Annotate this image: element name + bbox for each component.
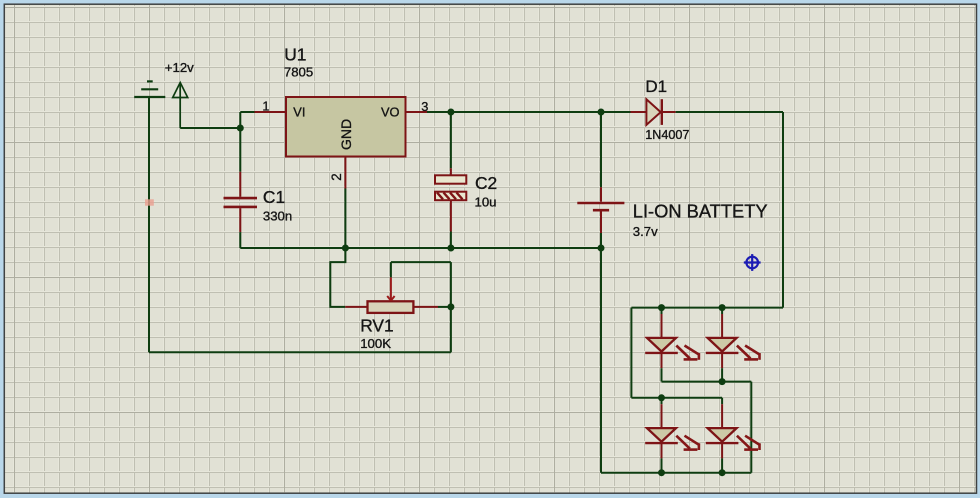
wire LED3 cathode to bottom rail [661,458,663,472]
wire C2 bottom to mid rail [450,232,452,249]
marker on ground wire [145,199,154,205]
svg-text:1: 1 [262,99,269,114]
junction RV1 right node [447,303,454,310]
wire right vertical [782,112,784,308]
pin 3 stub [406,111,428,113]
LED D4 [645,398,699,459]
svg-text:U1: U1 [284,44,306,64]
wire LED row2 top [631,397,722,399]
origin marker crosshair [744,254,761,271]
diode D1 [631,99,676,125]
pin 2 stub [344,157,346,189]
LED D2 [645,308,699,369]
junction node A [237,125,244,132]
svg-text:1N4007: 1N4007 [645,128,689,142]
wire node A up [239,112,241,128]
wire node A to pin1 [240,111,254,113]
LED D3 [706,308,760,369]
junction battery bottom [598,245,605,252]
wire cathode rail down right [750,382,752,473]
svg-text:C2: C2 [475,173,497,193]
svg-text:LI-ON BATTETY: LI-ON BATTETY [633,200,768,221]
pin 1 stub [255,111,287,113]
wire rail up to RV1 right node [450,307,452,352]
wire pin2 to mid rail [344,189,346,249]
wire bottom-left rail [149,351,451,353]
svg-text:7805: 7805 [284,65,313,80]
junction GND node [342,245,349,252]
capacitor C2 [435,168,466,231]
junction row2 LED3 anode [658,394,665,401]
wire C1 bottom to mid rail [239,232,241,248]
wire RV right stub to node [438,306,451,308]
wire mid rail [240,247,601,249]
wire battery branch upper [600,112,602,187]
svg-text:2: 2 [329,173,344,180]
wire wiper up [390,262,392,277]
wire C1 branch upper [239,128,241,172]
svg-text:C1: C1 [263,187,285,207]
wire D1 to right rail [676,111,783,113]
junction bottom rail LED4 [719,469,726,476]
junction LED2 anode [719,304,726,311]
svg-text:330n: 330n [263,209,292,224]
wire LED4 cathode to bottom rail [721,458,723,472]
junction bottom rail LED3 [658,469,665,476]
svg-text:D1: D1 [645,77,667,96]
battery BT1 [577,187,624,233]
wire wiper down to RV right node [450,262,452,307]
svg-text:VI: VI [293,105,305,120]
svg-text:GND: GND [338,119,354,150]
junction C2 bottom [447,245,454,252]
power +12v arrow [173,83,188,129]
wire left drop to row2 [630,308,632,398]
wire LED row1 top [631,307,783,309]
svg-text:VO: VO [381,105,400,120]
wire ground vertical [148,97,150,352]
svg-text:RV1: RV1 [360,316,394,336]
wire +12v to node A [180,127,240,129]
wire RV loop from GND node [330,248,345,307]
junction LED1 anode [658,304,665,311]
wire battery bottom through mid rail to LED rail [600,233,602,473]
potentiometer RV1 [345,277,438,313]
junction row1 cathodes [719,378,726,385]
svg-text:3.7v: 3.7v [633,224,658,239]
wire row1 cathode rail [662,381,752,383]
wire C2 branch upper [450,112,452,168]
op U1 body [286,97,406,157]
LED D5 [706,398,760,459]
junction battery top [598,109,605,116]
svg-text:100K: 100K [360,336,391,351]
junction C2 top [447,109,454,116]
wire LED2 cathode down [721,368,723,381]
svg-text:+12v: +12v [165,60,194,75]
wire output rail [427,111,631,113]
wire wiper top horizontal [391,261,451,263]
wire LED1 cathode down [661,368,663,381]
ground symbol (antenna bars) [134,81,165,97]
capacitor C1 [224,172,258,232]
wire bottom rail [601,472,751,474]
svg-text:10u: 10u [475,194,497,209]
